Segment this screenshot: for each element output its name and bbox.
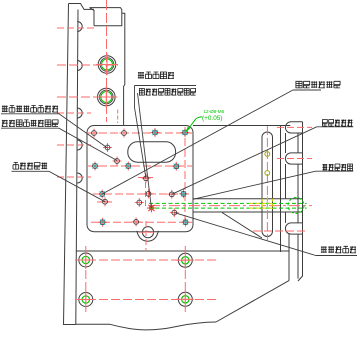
leader 1st gear inlet hole	[174, 213, 357, 256]
small hole 11 at (102.2,194)	[98, 190, 107, 199]
red horizontal centerline row 17	[75, 259, 217, 261]
small hole 20 at (185.5,222.2)	[181, 218, 190, 227]
green hidden oil line lower	[149, 207, 307, 209]
small hole 18 at (102.6,222.2)	[98, 218, 107, 227]
small hole 1 at (94,133)	[90, 129, 99, 138]
right wing mid vertical segments	[285, 133, 287, 223]
small hole 14 at (183.5,193.8)	[179, 189, 188, 198]
red horizontal centerline row 13	[277, 126, 312, 128]
main rounded plate face	[87, 126, 193, 232]
red cross at top circle 2	[95, 86, 117, 108]
oil channel top line	[193, 198, 303, 200]
boss circle on bottom edge	[142, 227, 153, 238]
bolt hole circle top 1	[98, 56, 116, 74]
left strip rib bump 4	[77, 140, 82, 150]
oil channel bottom line	[193, 211, 303, 213]
red vertical centerline bolt right	[184, 246, 186, 312]
red horizontal centerline row 3	[57, 96, 115, 98]
right wing slot 3 (stadium)	[285, 223, 302, 234]
yellow highlight dashes on channel	[249, 203, 275, 208]
leader to valve-to-converter hole	[1, 128, 117, 160]
leader 1st gear return hole	[172, 127, 353, 195]
lower shelf horizontal	[76, 250, 289, 252]
wavy break line bottom	[64, 322, 217, 330]
small hole 17 at (174.3,212.6)	[170, 208, 179, 217]
red vertical centerline bolt left	[85, 246, 87, 312]
label: reverse gear oil inlet hole	[13, 163, 47, 170]
mounting bolt circle 4	[176, 290, 194, 308]
small hole 12 at (148.5,193.8)	[144, 189, 153, 198]
small hole 8 at (128.3,166)	[124, 162, 133, 171]
svg-text:(+0.05): (+0.05)	[202, 115, 222, 122]
small hole 6 at (117,161)	[113, 157, 122, 166]
small hole 16 at (139.3,202.5)	[135, 198, 144, 207]
red vertical centerline right slot	[266, 126, 268, 240]
small hole 9 at (176.3,166.3)	[172, 162, 181, 171]
red horizontal centerline row 16	[139, 231, 157, 233]
left strip top cap	[69, 4, 95, 10]
label: 2nd gear inlet oil hole	[322, 164, 352, 171]
red vertical stub above valve hole	[117, 110, 119, 124]
label: transmission valve unloading hole	[296, 81, 340, 88]
red horizontal centerline row 9	[93, 193, 192, 195]
bottom edge bulge under boss circle	[137, 231, 159, 241]
small hole 2 at (124,133)	[120, 129, 129, 138]
plate top edge to right wing	[193, 125, 290, 127]
right wing slot 2 (stadium)	[285, 153, 302, 164]
leader 2nd gear inlet hole	[193, 171, 353, 199]
label shelf line top labels	[135, 85, 197, 87]
label: 1st gear inlet oil hole	[321, 246, 356, 253]
left strip rib bump 3	[77, 108, 82, 118]
svg-text:12-Ø8-M6: 12-Ø8-M6	[204, 109, 225, 114]
lower right diagonal outline	[216, 281, 289, 322]
right wing slot 1 (stadium)	[285, 122, 302, 133]
small hole 5 at (107.5,147.5)	[103, 143, 112, 152]
small circle in vertical slot upper	[265, 152, 270, 157]
right wing edge verticals	[298, 122, 303, 281]
left strip rib bump 5	[77, 173, 82, 183]
diagonal rib below channel	[222, 213, 262, 239]
yellow highlight on slot edges	[262, 196, 272, 210]
red horizontal centerline row 2	[57, 64, 118, 66]
red horizontal centerline row 6	[57, 144, 91, 146]
left strip rib bump 1	[77, 22, 82, 32]
label: lubricating friction plate	[138, 72, 174, 79]
red horizontal centerline row 11	[149, 205, 312, 207]
mounting bolt circle 2	[176, 251, 194, 269]
red vertical centerline through boss circle	[145, 221, 147, 250]
left strip inner edge	[76, 10, 78, 325]
slot (rounded) in plate	[128, 142, 176, 162]
small hole 10 at (146,178.3)	[142, 174, 151, 183]
mounting bolt circle 1	[77, 251, 95, 269]
leader lubricate friction plate	[135, 86, 147, 179]
top boss outline	[90, 8, 125, 126]
small circle in vertical slot lower	[265, 171, 270, 176]
red horizontal centerline row 4	[57, 112, 91, 114]
small hole 3 at (155,132.5)	[151, 128, 160, 137]
small hole 4 at (185,132.5)	[181, 128, 190, 137]
green hidden oil line upper	[149, 202, 307, 204]
left strip outer edge	[64, 4, 69, 326]
label: 1st gear return oil hole	[322, 120, 352, 127]
red horizontal centerline row 5	[88, 132, 192, 134]
leader to gearbox-to-valve hole	[1, 114, 108, 148]
right wing vertical slot	[262, 132, 273, 237]
red horizontal centerline row 15	[253, 230, 307, 232]
small hole 19 at (136.1,221.9)	[132, 217, 141, 226]
leader reverse-gear oil inlet	[12, 171, 106, 201]
red horizontal centerline row 7	[88, 165, 192, 167]
red horizontal centerline row 8	[57, 176, 153, 179]
red vertical centerline through top boss and circles	[106, 0, 108, 122]
lower right vertical	[288, 234, 290, 281]
red horizontal centerline row 1	[57, 27, 97, 29]
label: transmission valve to torque converter hole	[2, 120, 58, 127]
red vertical centerline x=185	[184, 127, 186, 226]
red cross at top circle 1	[96, 54, 118, 76]
green dashed circle on channel	[288, 198, 304, 214]
label: gearbox to transmission valve hole	[2, 106, 58, 113]
small hole 13 at (171.8,194.3)	[167, 190, 176, 199]
right wing inner vertical	[280, 126, 282, 253]
red horizontal centerline row 12	[91, 221, 192, 223]
small hole 15 at (105,201.7)	[101, 197, 110, 206]
label: 2nd and reverse return oil hole	[139, 89, 195, 96]
leader valve unloading hole	[102, 90, 321, 194]
mounting bolt circle 3	[77, 291, 95, 309]
green dimension leader with arrow	[187, 117, 202, 130]
red horizontal centerline row 18	[75, 299, 217, 301]
highlighted hole (red star) convergence	[147, 204, 156, 213]
leader 2nd/reverse return hole	[138, 93, 152, 208]
red horizontal centerline row 10	[97, 201, 112, 203]
left strip rib bump 2	[77, 61, 82, 71]
red horizontal centerline row 14	[277, 158, 312, 160]
red vertical centerline x=145.5 upper	[145, 173, 147, 209]
bolt hole circle top 2	[98, 88, 116, 106]
small hole 7 at (95,166)	[91, 162, 100, 171]
